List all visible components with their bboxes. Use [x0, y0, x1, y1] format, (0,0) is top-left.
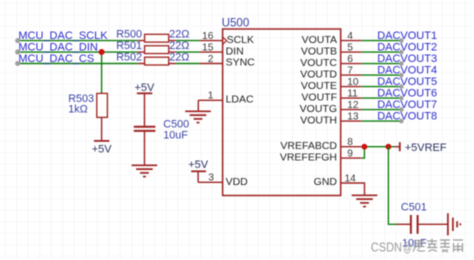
- svg-text:VOUTH: VOUTH: [300, 114, 337, 126]
- pin 10 VOUTE: [341, 84, 404, 89]
- svg-text:VREFEFGH: VREFEFGH: [280, 151, 337, 163]
- power port +5V below R503: [92, 141, 113, 155]
- wire +5V to VDD pin: [198, 181, 205, 183]
- svg-text:DACVOUT7: DACVOUT7: [377, 99, 437, 111]
- svg-text:GND: GND: [314, 176, 338, 188]
- node end dot MCU_DAC_SCLK: [15, 38, 20, 43]
- junction on MCU_DAC_DIN: [99, 49, 105, 55]
- svg-text:4: 4: [347, 31, 353, 42]
- svg-text:R500: R500: [116, 29, 142, 41]
- pin 12 VOUTG: [341, 107, 404, 112]
- pin 1 LDAC: [198, 99, 222, 101]
- svg-text:VOUTB: VOUTB: [301, 45, 337, 57]
- svg-text:15: 15: [202, 42, 214, 53]
- svg-text:10uF: 10uF: [163, 129, 188, 141]
- svg-text:+5V: +5V: [92, 143, 113, 155]
- watermark chinese glyph 1: [413, 241, 425, 252]
- ground stub for LDAC: [197, 100, 199, 111]
- svg-text:1: 1: [208, 91, 214, 102]
- op IC U500 body: [223, 29, 341, 196]
- power port +5VREF: [395, 142, 447, 154]
- pin 11 VOUTF: [341, 96, 404, 101]
- pin 15 DIN: [200, 51, 223, 53]
- ground right of C501: [448, 213, 460, 235]
- pin 5 VOUTB: [341, 50, 404, 55]
- svg-text:R501: R501: [116, 40, 142, 52]
- capacitor C501: [397, 215, 448, 234]
- wire MCU_DAC_CS left segment: [18, 63, 138, 65]
- clock wedge SCLK: [223, 37, 227, 44]
- power port +5V for VDD: [188, 159, 209, 182]
- svg-text:22Ω: 22Ω: [169, 29, 189, 41]
- svg-text:VOUTG: VOUTG: [300, 103, 337, 115]
- wire pin9 up to pin8 net: [361, 147, 364, 158]
- svg-text:22Ω: 22Ω: [169, 51, 189, 63]
- wire MCU_DAC_SCLK left segment: [18, 40, 138, 42]
- node end dot MCU_DAC_CS: [15, 61, 20, 66]
- svg-text:1kΩ: 1kΩ: [68, 104, 87, 116]
- svg-text:VOUTD: VOUTD: [300, 68, 337, 80]
- pin 4 VOUTA: [341, 38, 404, 43]
- svg-text:22Ω: 22Ω: [169, 40, 189, 52]
- svg-text:DACVOUT2: DACVOUT2: [377, 41, 437, 53]
- svg-text:MCU_DAC_CS: MCU_DAC_CS: [18, 53, 94, 65]
- svg-text:DACVOUT1: DACVOUT1: [377, 30, 437, 42]
- svg-text:VOUTE: VOUTE: [301, 80, 337, 92]
- svg-text:6: 6: [347, 54, 353, 65]
- ground below C500: [132, 165, 158, 176]
- pin 6 VOUTC: [341, 61, 404, 66]
- resistor R501: [138, 46, 176, 54]
- svg-text:@: @: [403, 239, 412, 254]
- svg-text:14: 14: [345, 173, 357, 184]
- pin 3 VDD: [206, 181, 223, 183]
- svg-text:12: 12: [347, 100, 359, 111]
- svg-text:U500: U500: [222, 16, 250, 29]
- svg-text:5: 5: [347, 42, 353, 53]
- pin 7 VOUTD: [341, 73, 404, 78]
- wire pin8 to +5VREF: [361, 146, 394, 148]
- wire SYNC resistor-to-pin segment: [176, 63, 200, 65]
- svg-text:8: 8: [347, 137, 353, 148]
- svg-text:+5V: +5V: [188, 159, 209, 171]
- ground below LDAC: [185, 111, 211, 122]
- capacitor C500: [134, 127, 156, 165]
- pin 2 SYNC: [200, 63, 223, 65]
- junction VREF B: [386, 144, 392, 150]
- junction VREF A: [362, 144, 368, 150]
- svg-text:16: 16: [202, 31, 214, 42]
- svg-text:C501: C501: [401, 202, 427, 214]
- svg-text:MCU_DAC_DIN: MCU_DAC_DIN: [18, 41, 98, 53]
- svg-text:13: 13: [347, 111, 359, 122]
- wire from junction down to R503: [101, 52, 103, 93]
- resistor R503: [97, 93, 108, 140]
- svg-text:+5V: +5V: [134, 82, 155, 94]
- svg-text:DIN: DIN: [226, 45, 244, 57]
- svg-text:SCLK: SCLK: [227, 34, 254, 46]
- svg-text:R502: R502: [116, 51, 142, 63]
- svg-text:9: 9: [347, 148, 353, 159]
- resistor R502: [138, 57, 176, 65]
- power port +5V above C500: [134, 82, 155, 126]
- svg-text:SYNC: SYNC: [226, 57, 256, 69]
- svg-text:CSDN: CSDN: [371, 239, 402, 254]
- svg-text:LDAC: LDAC: [226, 94, 254, 106]
- svg-text:DACVOUT8: DACVOUT8: [377, 110, 437, 122]
- watermark chinese glyph 3: [440, 240, 450, 252]
- watermark CSDN: [371, 239, 412, 254]
- svg-text:+5VREF: +5VREF: [405, 142, 447, 154]
- svg-text:11: 11: [347, 88, 358, 99]
- svg-text:10: 10: [347, 77, 359, 88]
- svg-text:2: 2: [208, 54, 214, 65]
- svg-text:MCU_DAC_SCLK: MCU_DAC_SCLK: [18, 30, 108, 42]
- svg-text:VOUTA: VOUTA: [302, 34, 337, 46]
- pin 8 VREFABCD: [341, 146, 362, 148]
- svg-text:DACVOUT4: DACVOUT4: [377, 64, 437, 76]
- watermark chinese glyph 2: [427, 239, 438, 252]
- pin 14 GND: [341, 183, 365, 195]
- wire MCU_DAC_DIN left segment: [18, 51, 138, 53]
- pin 13 VOUTH: [341, 119, 404, 124]
- wire junction B down to C501: [388, 147, 396, 225]
- wire SCLK resistor-to-pin segment: [176, 40, 200, 42]
- svg-text:VDD: VDD: [226, 176, 249, 188]
- resistor R500: [138, 34, 176, 42]
- wire DIN resistor-to-pin segment: [176, 51, 200, 53]
- svg-text:DACVOUT3: DACVOUT3: [377, 53, 437, 65]
- ground below pin 14: [352, 195, 378, 206]
- pin 9 VREFEFGH: [341, 157, 362, 159]
- pin 16 SCLK: [200, 40, 223, 42]
- svg-text:DACVOUT6: DACVOUT6: [377, 87, 437, 99]
- svg-text:7: 7: [347, 65, 353, 76]
- svg-text:DACVOUT5: DACVOUT5: [377, 76, 437, 88]
- svg-text:VOUTF: VOUTF: [301, 91, 337, 103]
- node end dot MCU_DAC_DIN: [15, 50, 20, 55]
- watermark chinese glyph 4: [453, 240, 463, 252]
- svg-text:3: 3: [208, 173, 214, 184]
- svg-text:VOUTC: VOUTC: [300, 57, 337, 69]
- svg-text:VREFABCD: VREFABCD: [280, 140, 337, 152]
